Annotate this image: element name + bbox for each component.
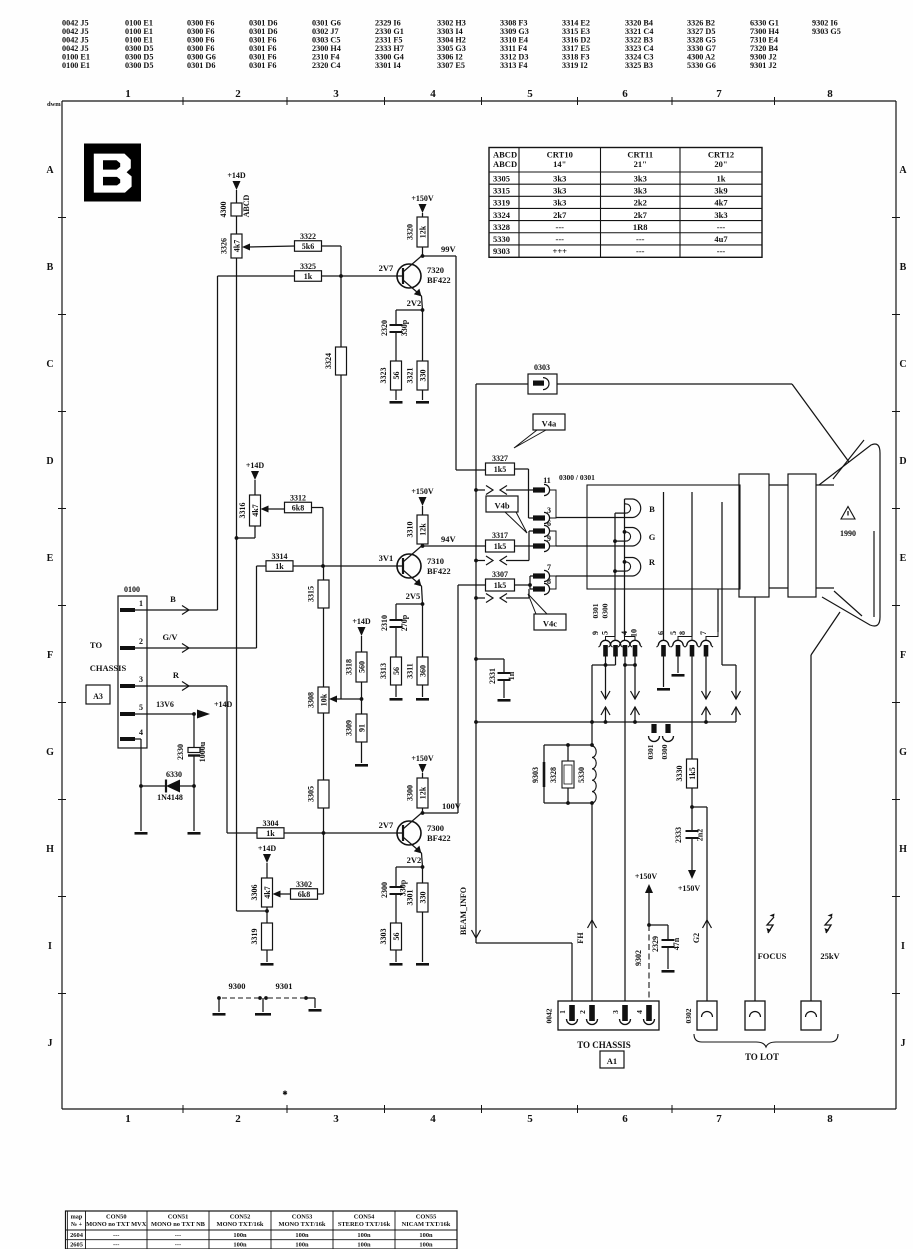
svg-text:3V1: 3V1 xyxy=(379,553,394,563)
resistor 3325 1k xyxy=(295,271,322,282)
wire 99V to 3327 xyxy=(456,469,486,471)
svg-text:+++: +++ xyxy=(552,246,567,256)
wire beam info to pin 1 xyxy=(475,938,477,943)
svg-text:B: B xyxy=(47,262,54,273)
svg-text:3306: 3306 xyxy=(250,885,259,901)
cathode G xyxy=(556,545,633,547)
svg-text:3: 3 xyxy=(611,1010,620,1014)
heater common line xyxy=(624,499,626,637)
transistor 7310 BF422 xyxy=(397,554,421,578)
svg-text:ABCD: ABCD xyxy=(242,194,251,217)
svg-text:2329: 2329 xyxy=(651,936,660,952)
wire collector node 99V xyxy=(422,247,424,255)
svg-text:3302: 3302 xyxy=(296,880,312,889)
svg-text:12k: 12k xyxy=(418,786,427,799)
svg-text:1N4148: 1N4148 xyxy=(157,793,183,802)
svg-text:J: J xyxy=(901,1038,906,1049)
svg-text:1: 1 xyxy=(139,599,143,608)
svg-text:0042: 0042 xyxy=(545,1008,554,1023)
svg-text:3: 3 xyxy=(547,506,551,515)
resistor 3317 1k5 xyxy=(486,540,515,552)
svg-text:7: 7 xyxy=(716,1113,722,1125)
svg-text:7: 7 xyxy=(699,631,708,635)
svg-text:3309: 3309 xyxy=(345,720,354,736)
svg-text:---: --- xyxy=(636,234,645,244)
svg-text:100n: 100n xyxy=(419,1242,433,1249)
wire 0303 to CRT xyxy=(557,383,792,385)
potentiometer 3326 4k7 xyxy=(231,234,242,258)
svg-text:3321: 3321 xyxy=(406,368,415,384)
svg-text:A: A xyxy=(46,165,54,176)
svg-text:+150V: +150V xyxy=(411,194,434,203)
svg-text:TO LOT: TO LOT xyxy=(745,1052,779,1062)
svg-text:1: 1 xyxy=(125,1113,131,1125)
resistor 3303 56 xyxy=(391,923,402,950)
wire 3304 left to R line xyxy=(227,832,257,834)
wire 0303 to heater rail xyxy=(476,383,528,385)
wire diode node to ground xyxy=(193,786,195,831)
anode lead to 25kV xyxy=(811,612,840,655)
svg-text:56: 56 xyxy=(392,372,401,380)
filament network node xyxy=(591,722,593,745)
EHT spark gap 25kV xyxy=(825,917,832,933)
svg-text:CHASSIS: CHASSIS xyxy=(90,663,127,673)
svg-text:C: C xyxy=(899,359,906,370)
warning triangle 1990 xyxy=(841,507,855,520)
connector 0042 xyxy=(558,1001,659,1030)
connector 0302 xyxy=(697,1001,717,1030)
svg-text:3315: 3315 xyxy=(493,185,510,195)
capacitor 2300 330p xyxy=(395,867,397,886)
svg-text:5330: 5330 xyxy=(577,767,586,783)
resistor 3305 xyxy=(318,780,329,808)
wire 3308 down to 3305 xyxy=(323,713,325,780)
pin pair bridge 7-8 xyxy=(550,576,556,589)
capacitor 2333 2n2 xyxy=(691,807,693,830)
svg-text:3307 E5: 3307 E5 xyxy=(437,61,465,70)
svg-text:2k7: 2k7 xyxy=(553,210,567,220)
svg-text:CON55: CON55 xyxy=(416,1214,437,1221)
svg-text:MONO TXT/16k: MONO TXT/16k xyxy=(217,1221,264,1228)
resistor 3327 1k5 xyxy=(486,463,515,475)
svg-text:✱: ✱ xyxy=(282,1090,287,1097)
svg-text:---: --- xyxy=(636,246,645,256)
grid line G2 xyxy=(691,492,693,637)
svg-text:47n: 47n xyxy=(672,937,681,950)
svg-text:G: G xyxy=(649,532,656,542)
svg-text:10k: 10k xyxy=(319,693,328,706)
svg-text:G: G xyxy=(46,747,54,758)
svg-text:1k5: 1k5 xyxy=(688,767,697,779)
focus spark gap xyxy=(767,917,774,933)
svg-text:100n: 100n xyxy=(357,1232,371,1239)
connector pins 0301 0300 on bus xyxy=(651,724,656,733)
svg-text:25kV: 25kV xyxy=(820,951,840,961)
svg-text:V4a: V4a xyxy=(542,419,557,429)
wire 3326 wiper from 3322 xyxy=(248,246,295,247)
svg-text:2V2: 2V2 xyxy=(407,298,422,308)
ground pin 6 xyxy=(663,656,665,687)
svg-text:NICAM TXT/16k: NICAM TXT/16k xyxy=(402,1221,451,1228)
wire 3314 left xyxy=(257,565,267,567)
svg-text:5: 5 xyxy=(669,631,678,635)
svg-text:7300: 7300 xyxy=(427,823,444,833)
svg-text:J: J xyxy=(48,1038,53,1049)
svg-text:4k7: 4k7 xyxy=(232,240,241,252)
svg-text:6: 6 xyxy=(622,1113,628,1125)
CRT socket pin 9 xyxy=(533,543,545,548)
wire pin 8 to 3330 xyxy=(691,656,693,759)
svg-text:1k: 1k xyxy=(266,829,275,838)
svg-text:3301: 3301 xyxy=(406,890,415,906)
connector 0100 xyxy=(118,596,147,748)
svg-text:2V7: 2V7 xyxy=(379,263,394,273)
potentiometer 3316 4k7 xyxy=(250,495,261,526)
svg-text:H: H xyxy=(899,844,907,855)
jumper 9301 xyxy=(268,997,304,999)
svg-text:---: --- xyxy=(717,222,726,232)
svg-text:---: --- xyxy=(556,222,565,232)
svg-text:0100: 0100 xyxy=(124,585,140,594)
svg-text:11: 11 xyxy=(543,476,551,485)
svg-text:1k: 1k xyxy=(275,562,284,571)
svg-text:330p: 330p xyxy=(400,319,409,336)
svg-text:STEREO TXT/16k: STEREO TXT/16k xyxy=(338,1221,391,1228)
resistor 3315 xyxy=(318,580,329,608)
link row V4c to pin 8 xyxy=(474,596,478,600)
svg-text:4k7: 4k7 xyxy=(251,504,260,516)
svg-text:0301 F6: 0301 F6 xyxy=(249,61,277,70)
svg-text:100n: 100n xyxy=(233,1242,247,1249)
svg-text:3307: 3307 xyxy=(492,570,508,579)
svg-text:1: 1 xyxy=(125,88,131,100)
CRT base box 0300/0301 xyxy=(587,485,740,589)
svg-text:3326: 3326 xyxy=(220,238,229,254)
svg-text:3313 F4: 3313 F4 xyxy=(500,61,528,70)
svg-text:13V6: 13V6 xyxy=(156,700,174,709)
svg-text:5: 5 xyxy=(139,703,143,712)
wire emitter node 2V2 bottom xyxy=(422,853,423,867)
svg-text:3312: 3312 xyxy=(290,493,306,502)
resistor 3328 xyxy=(562,761,574,788)
wire emitter node 2V2 xyxy=(422,296,423,310)
svg-text:12k: 12k xyxy=(418,225,427,238)
socket bracket pair 9-5 xyxy=(606,637,616,641)
resistor 3321 330 xyxy=(422,310,424,361)
svg-text:3303: 3303 xyxy=(379,929,388,945)
svg-text:2V2: 2V2 xyxy=(407,855,422,865)
svg-text:1k5: 1k5 xyxy=(494,542,506,551)
capacitor 2331 1n xyxy=(474,657,478,661)
svg-text:A: A xyxy=(899,165,907,176)
wire R drop xyxy=(226,686,228,833)
callout V4b xyxy=(486,496,518,512)
pin pair bridge 6-9 xyxy=(550,531,556,546)
wire base node 7320 xyxy=(321,275,403,277)
svg-text:3301 I4: 3301 I4 xyxy=(375,61,401,70)
board link arrows x606 xyxy=(601,691,610,699)
svg-text:TO: TO xyxy=(90,640,103,650)
resistor 3324 xyxy=(336,347,347,375)
wire emitter node 2V5 xyxy=(422,586,423,604)
svg-text:A1: A1 xyxy=(607,1056,617,1066)
svg-text:2: 2 xyxy=(139,637,143,646)
svg-text:3320: 3320 xyxy=(406,224,415,240)
svg-text:4u7: 4u7 xyxy=(714,234,728,244)
CRT socket pin 11 xyxy=(533,487,545,492)
svg-text:ABCD: ABCD xyxy=(493,150,517,160)
wire 3316 wiper from 3312 xyxy=(267,508,285,510)
svg-text:8: 8 xyxy=(547,577,551,586)
svg-text:BF422: BF422 xyxy=(427,275,451,285)
wire G2 to 0302 xyxy=(692,806,707,808)
svg-text:4: 4 xyxy=(620,631,629,635)
resistor 4300 ABCD xyxy=(231,203,242,216)
pin pair bridge 11-3 xyxy=(550,490,556,518)
svg-text:A3: A3 xyxy=(93,692,103,701)
potentiometer 3308 10k xyxy=(318,687,329,713)
supply +150V via 2333 xyxy=(691,861,693,870)
resistor 3311 360 xyxy=(422,604,424,657)
resistor 3313 56 xyxy=(391,657,402,685)
beam info chevron xyxy=(472,930,481,938)
wire base node 7300 xyxy=(284,832,403,834)
wire 3326 chain down xyxy=(236,258,238,911)
svg-text:+150V: +150V xyxy=(411,754,434,763)
capacitor 2320 330p xyxy=(395,310,397,324)
resistor 3304 1k xyxy=(257,828,284,839)
svg-text:+14D: +14D xyxy=(214,700,233,709)
svg-text:10: 10 xyxy=(630,629,639,637)
svg-text:R: R xyxy=(649,557,656,567)
svg-text:+14D: +14D xyxy=(258,844,277,853)
svg-text:CON54: CON54 xyxy=(354,1214,375,1221)
svg-text:2300: 2300 xyxy=(380,882,389,898)
svg-text:BEAM_INFO: BEAM_INFO xyxy=(459,887,468,935)
svg-text:0300: 0300 xyxy=(601,603,610,618)
svg-text:E: E xyxy=(47,553,54,564)
resistor 3322 5k6 xyxy=(295,241,322,252)
network bottom node xyxy=(544,802,592,804)
svg-text:6: 6 xyxy=(622,88,628,100)
svg-text:G/V: G/V xyxy=(162,632,178,642)
svg-text:3319: 3319 xyxy=(250,929,259,945)
brace TO LOT xyxy=(694,1034,838,1047)
svg-text:3308: 3308 xyxy=(307,692,316,708)
svg-text:99V: 99V xyxy=(441,244,457,254)
svg-text:0100 E1: 0100 E1 xyxy=(62,61,90,70)
svg-text:1n: 1n xyxy=(507,671,516,680)
CRT socket pin 7 xyxy=(533,573,545,578)
svg-text:MONO TXT/16k: MONO TXT/16k xyxy=(279,1221,326,1228)
jumper 9302 dashed xyxy=(648,925,650,1002)
svg-text:56: 56 xyxy=(392,933,401,941)
svg-text:6: 6 xyxy=(657,631,666,635)
wire pin 7 link xyxy=(705,656,707,699)
heater rail vertical xyxy=(475,384,477,938)
svg-text:560: 560 xyxy=(357,661,366,673)
wire base node 7310 xyxy=(293,565,403,567)
svg-text:5330 G6: 5330 G6 xyxy=(687,61,716,70)
svg-text:1k5: 1k5 xyxy=(494,581,506,590)
svg-text:1: 1 xyxy=(558,1010,567,1014)
svg-text:CON53: CON53 xyxy=(292,1214,313,1221)
svg-text:5: 5 xyxy=(527,88,533,100)
resistor 3323 56 xyxy=(391,361,402,390)
wire 3322 right xyxy=(321,245,341,247)
resistor 3319 xyxy=(262,923,273,950)
svg-text:CON52: CON52 xyxy=(230,1214,251,1221)
svg-text:+150V: +150V xyxy=(411,487,434,496)
svg-text:I: I xyxy=(48,941,52,952)
svg-text:---: --- xyxy=(556,234,565,244)
svg-text:BF422: BF422 xyxy=(427,833,451,843)
svg-text:9301: 9301 xyxy=(276,981,293,991)
svg-text:5: 5 xyxy=(601,631,610,635)
svg-text:330: 330 xyxy=(418,892,427,904)
svg-text:3316: 3316 xyxy=(238,503,247,519)
svg-text:3: 3 xyxy=(333,1113,339,1125)
CRT envelope xyxy=(819,444,880,626)
svg-text:H: H xyxy=(46,844,54,855)
wire 3312 right riser xyxy=(312,507,323,509)
resistor 3320 12k xyxy=(417,217,428,247)
svg-text:D: D xyxy=(899,456,906,467)
CRT socket pin 3 xyxy=(533,515,545,520)
svg-text:2V7: 2V7 xyxy=(379,820,394,830)
svg-text:2: 2 xyxy=(578,1010,587,1014)
svg-text:MONO no TXT NB: MONO no TXT NB xyxy=(151,1221,206,1228)
svg-text:+14D: +14D xyxy=(227,171,246,180)
svg-text:0300: 0300 xyxy=(660,744,669,759)
ground pin 5 xyxy=(677,656,679,673)
svg-text:4: 4 xyxy=(430,1113,436,1125)
svg-text:1000u: 1000u xyxy=(198,741,207,762)
svg-text:3k3: 3k3 xyxy=(714,210,727,220)
svg-text:7310: 7310 xyxy=(427,556,444,566)
svg-text:270p: 270p xyxy=(400,614,409,631)
svg-text:CRT12: CRT12 xyxy=(708,150,734,160)
svg-text:2333: 2333 xyxy=(674,827,683,843)
svg-text:1k: 1k xyxy=(717,173,726,183)
svg-text:C: C xyxy=(46,359,53,370)
svg-text:0303: 0303 xyxy=(534,363,550,372)
wire pins 4-10 common xyxy=(624,656,626,1007)
svg-text:3310: 3310 xyxy=(406,522,415,538)
svg-text:6: 6 xyxy=(547,519,551,528)
board link arrows x635 xyxy=(631,691,640,699)
svg-text:3k3: 3k3 xyxy=(553,198,566,208)
svg-text:3: 3 xyxy=(333,88,339,100)
svg-text:+14D: +14D xyxy=(246,461,265,470)
socket bracket pin 7 xyxy=(706,632,718,640)
wire FH to chassis connector xyxy=(591,803,593,1007)
resistor 3307 1k5 xyxy=(486,579,515,591)
resistor 3314 1k xyxy=(266,561,293,572)
svg-text:2604: 2604 xyxy=(70,1232,84,1239)
svg-text:3319: 3319 xyxy=(493,198,510,208)
resistor 3301 330 xyxy=(422,867,424,883)
svg-text:R: R xyxy=(173,670,180,680)
wire G/V riser xyxy=(256,566,258,648)
svg-text:100n: 100n xyxy=(233,1232,247,1239)
socket bracket pair 4-10 xyxy=(625,637,636,641)
svg-text:20": 20" xyxy=(714,159,727,169)
svg-text:---: --- xyxy=(175,1242,181,1249)
svg-text:8: 8 xyxy=(678,631,687,635)
svg-text:94V: 94V xyxy=(441,534,457,544)
svg-text:№ +: № + xyxy=(71,1221,83,1228)
svg-text:7: 7 xyxy=(716,88,722,100)
svg-text:1R8: 1R8 xyxy=(633,222,648,232)
svg-text:14": 14" xyxy=(553,159,566,169)
svg-text:0301: 0301 xyxy=(591,603,600,618)
CRT variant table xyxy=(489,148,762,258)
callout V4a xyxy=(533,414,565,430)
svg-text:3324: 3324 xyxy=(324,353,333,369)
svg-text:MONO no TXT MVX: MONO no TXT MVX xyxy=(86,1221,147,1228)
svg-text:2n2: 2n2 xyxy=(696,829,705,841)
resistor 3310 12k xyxy=(417,515,428,544)
jumper 9303 xyxy=(543,745,545,803)
svg-text:+14D: +14D xyxy=(352,617,371,626)
wire B riser xyxy=(217,276,219,610)
svg-text:2320: 2320 xyxy=(380,320,389,336)
resistor 3330 1k5 xyxy=(687,759,698,788)
wire 3324 down to 3308 wiper rail xyxy=(340,375,342,699)
resistor 3309 91 xyxy=(356,714,367,742)
svg-text:9: 9 xyxy=(591,631,600,635)
svg-text:91: 91 xyxy=(357,724,366,732)
wire 100V to 3307 xyxy=(458,584,486,586)
connector 0303 xyxy=(528,374,557,394)
CRT socket pin 6 xyxy=(533,528,545,533)
connection options table xyxy=(66,1211,458,1249)
svg-text:2605: 2605 xyxy=(70,1242,83,1249)
svg-text:4300: 4300 xyxy=(219,202,228,218)
svg-text:4: 4 xyxy=(635,1010,644,1014)
svg-text:FH: FH xyxy=(576,932,585,944)
svg-text:CRT10: CRT10 xyxy=(547,150,573,160)
svg-text:CRT11: CRT11 xyxy=(627,150,653,160)
focus lead xyxy=(754,597,756,1001)
svg-text:100n: 100n xyxy=(357,1242,371,1249)
svg-text:dwm: dwm xyxy=(47,101,61,108)
svg-text:3: 3 xyxy=(139,675,143,684)
svg-text:12k: 12k xyxy=(418,523,427,536)
svg-text:2k7: 2k7 xyxy=(634,210,648,220)
svg-text:360: 360 xyxy=(418,665,427,677)
svg-text:3k3: 3k3 xyxy=(553,185,566,195)
svg-text:0300 / 0301: 0300 / 0301 xyxy=(559,473,595,482)
svg-text:+150V: +150V xyxy=(635,872,658,881)
svg-text:3324: 3324 xyxy=(493,210,511,220)
gun line to pin7 bracket xyxy=(717,589,719,632)
svg-text:4: 4 xyxy=(430,88,436,100)
svg-text:0300 D5: 0300 D5 xyxy=(125,61,153,70)
wire 3325 left to B line xyxy=(218,275,296,277)
wire collector node 94V xyxy=(422,544,424,546)
svg-text:6k8: 6k8 xyxy=(292,504,304,513)
svg-text:TO CHASSIS: TO CHASSIS xyxy=(577,1040,631,1050)
wire 3306 bottom node xyxy=(266,907,268,923)
svg-text:0301: 0301 xyxy=(646,744,655,759)
svg-text:---: --- xyxy=(175,1232,181,1239)
svg-text:2320 C4: 2320 C4 xyxy=(312,61,340,70)
svg-text:3k9: 3k9 xyxy=(714,185,727,195)
svg-text:3325 B3: 3325 B3 xyxy=(625,61,653,70)
CRT base pins with spark gaps xyxy=(600,640,610,645)
